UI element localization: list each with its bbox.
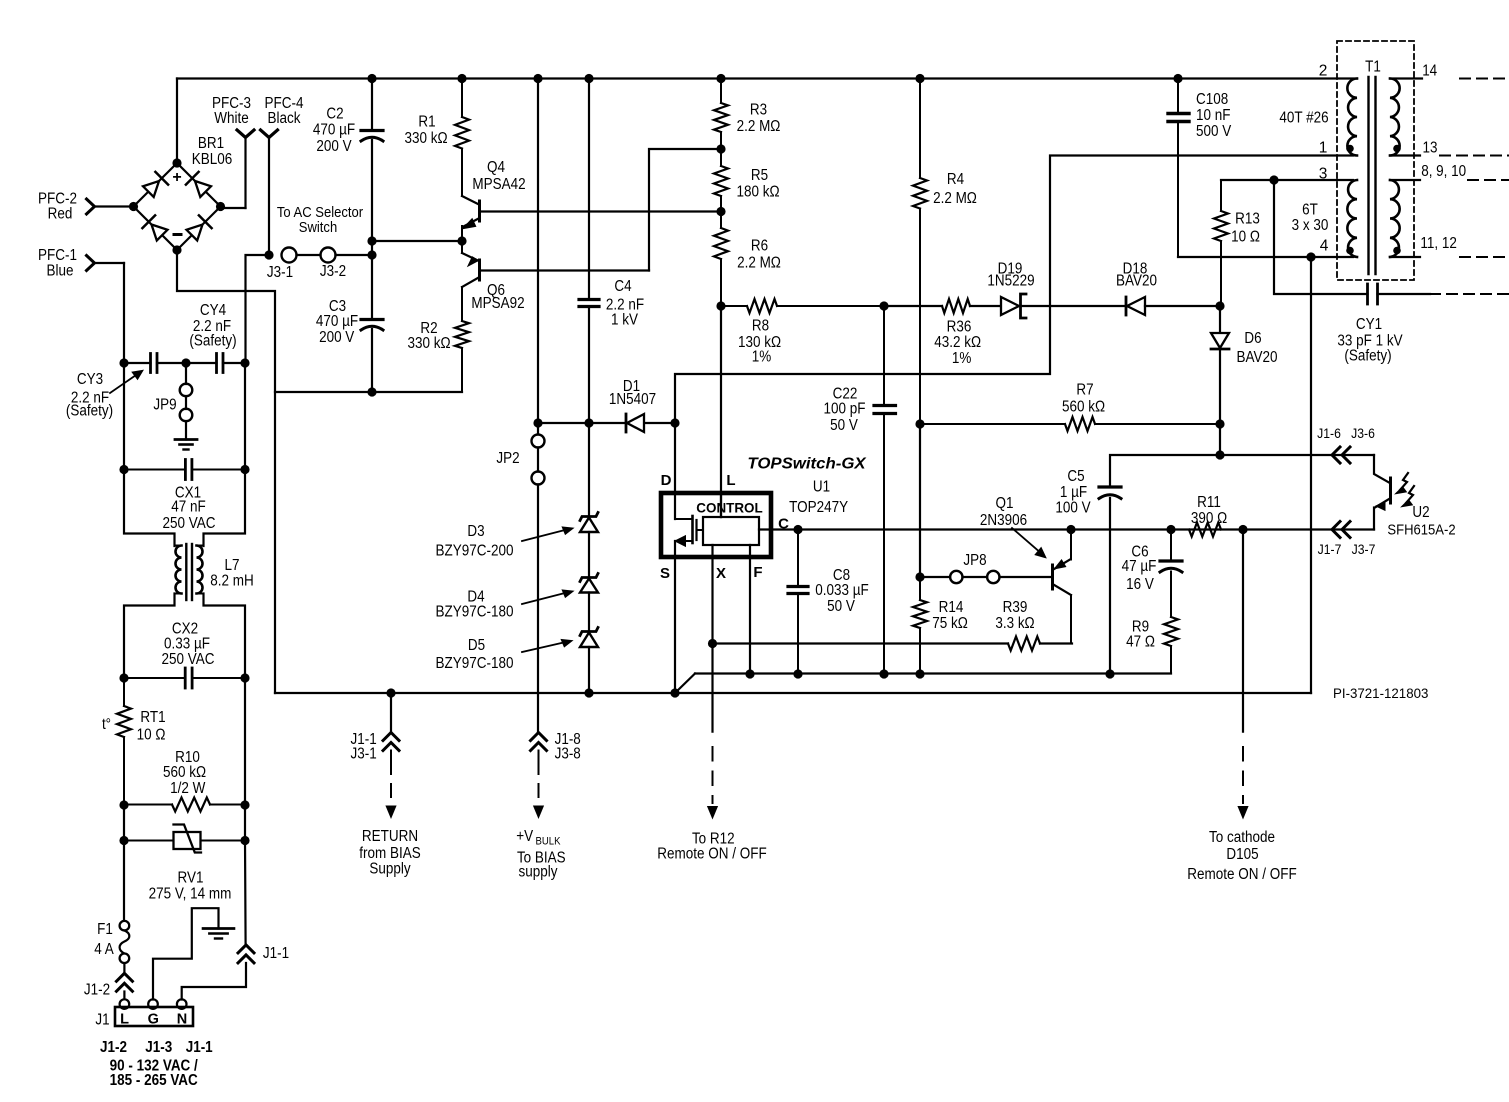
svg-text:L: L <box>726 472 735 489</box>
resistor R5 180k <box>714 149 728 212</box>
label PFC-4 <box>265 95 304 112</box>
wire RV1 to F1 <box>123 841 125 922</box>
wire top rail to JP2 <box>537 79 539 435</box>
svg-text:X: X <box>716 565 726 582</box>
connector J1-7 J3-7 <box>1332 522 1350 538</box>
node X rail tap <box>708 639 717 648</box>
svg-text:CY4: CY4 <box>200 302 227 319</box>
svg-text:RETURN: RETURN <box>362 828 418 845</box>
svg-text:J3-6: J3-6 <box>1351 425 1375 441</box>
pin 3 <box>1319 166 1328 183</box>
svg-text:47 µF: 47 µF <box>1122 558 1157 575</box>
label R6 value <box>737 255 781 272</box>
svg-text:8.2 mH: 8.2 mH <box>210 573 254 590</box>
label C3 voltage <box>319 329 355 346</box>
svg-text:2.2 MΩ: 2.2 MΩ <box>737 255 781 272</box>
node bias return tap <box>386 688 395 697</box>
node JP9 top <box>181 358 190 367</box>
dashed pin 11 12 off page <box>1460 256 1509 258</box>
connector J1-8 J3-8 <box>531 733 547 751</box>
label SFH615A-2 <box>1387 522 1455 539</box>
pin 4 <box>1320 238 1329 255</box>
label Blue <box>47 263 74 280</box>
label 3 x 30 <box>1292 217 1329 234</box>
svg-text:F: F <box>753 564 762 581</box>
label Black <box>268 110 301 127</box>
connector J1-1 <box>238 945 254 963</box>
arrow bias return <box>385 806 396 820</box>
node JP2 top rail <box>533 74 542 83</box>
pin label C <box>778 516 789 533</box>
wire RV1 right lead <box>201 805 246 841</box>
wire CY3-CY4 link <box>124 362 217 364</box>
node pin3 CY1 tap <box>1269 175 1278 184</box>
label J1-7 <box>1318 541 1342 557</box>
label R7 <box>1076 382 1093 399</box>
resistor R7 560k <box>920 417 1220 431</box>
label R14 <box>939 599 964 616</box>
label R5 value <box>736 184 779 201</box>
capacitor CY1 33pF <box>1368 284 1378 304</box>
label PFC-3 <box>212 95 251 112</box>
pin label G <box>148 1012 159 1028</box>
label VAC range 1 <box>110 1058 199 1075</box>
label C5 voltage <box>1055 500 1091 517</box>
connector J1-2 <box>116 973 132 991</box>
svg-text:390 Ω: 390 Ω <box>1191 510 1227 527</box>
svg-text:Blue: Blue <box>47 263 74 280</box>
label R11 <box>1197 494 1221 511</box>
svg-text:13: 13 <box>1423 140 1438 157</box>
label C2 value <box>313 122 355 139</box>
label R10 <box>175 749 200 766</box>
svg-text:L7: L7 <box>225 557 240 574</box>
transformer T1 core <box>1369 77 1376 274</box>
label R2 <box>420 320 437 337</box>
resistor R39 3.3k <box>1008 637 1040 651</box>
wire S rail <box>675 674 1171 694</box>
label VAC range 2 <box>110 1072 198 1089</box>
wire Q6 base <box>480 269 650 271</box>
fuse F1 4A <box>120 921 130 963</box>
label C5 <box>1067 468 1084 485</box>
ground JP9 <box>175 440 197 450</box>
svg-text:R39: R39 <box>1003 599 1028 616</box>
wire C5 top run <box>1110 455 1220 487</box>
wire JP8 to Q1 base <box>1000 576 1052 578</box>
node R14 bottom <box>915 669 924 678</box>
diode BR1 upper-right <box>186 172 211 197</box>
svg-text:T1: T1 <box>1365 59 1381 76</box>
svg-text:J1-2: J1-2 <box>84 982 110 999</box>
wire remote off drop <box>1242 530 1244 804</box>
label R4 value <box>933 190 977 207</box>
label D18 part <box>1116 273 1157 290</box>
svg-text:200 V: 200 V <box>319 329 355 346</box>
svg-text:47 Ω: 47 Ω <box>1126 634 1155 651</box>
wire F pin <box>749 545 751 674</box>
capacitor C2 470uF 200V <box>361 131 383 142</box>
label R3 <box>750 102 767 119</box>
wire T1 pin1 run <box>675 156 1353 424</box>
svg-text:J1-6: J1-6 <box>1317 425 1341 441</box>
svg-text:47 nF: 47 nF <box>171 499 206 516</box>
svg-text:250 VAC: 250 VAC <box>162 651 215 668</box>
label PFC-1 <box>38 247 77 264</box>
svg-text:MPSA92: MPSA92 <box>471 295 524 312</box>
node Q1 emitter rail <box>1066 525 1075 534</box>
wire PFC-4 down <box>268 138 270 256</box>
node CX1 left <box>119 465 128 474</box>
node C22 tap <box>879 301 888 310</box>
label CY4 value <box>193 318 231 335</box>
svg-text:3.3 kΩ: 3.3 kΩ <box>995 615 1034 632</box>
wire CX1 to L7 left <box>124 470 175 547</box>
wire D pin <box>674 423 676 519</box>
pin label X <box>716 565 726 582</box>
label CY4 safety <box>189 333 236 350</box>
svg-text:560 kΩ: 560 kΩ <box>1062 399 1105 416</box>
label R36 tol <box>952 350 972 367</box>
svg-text:N: N <box>177 1012 187 1028</box>
label CY3 value <box>71 390 109 407</box>
wire top rail to C2 <box>371 79 373 131</box>
ic U1 outline <box>661 493 771 557</box>
wire PFC-1 lead <box>94 262 124 264</box>
svg-text:R4: R4 <box>947 171 965 188</box>
svg-text:BR1: BR1 <box>198 135 224 152</box>
ic U1 control block <box>703 517 759 545</box>
svg-text:2N3906: 2N3906 <box>980 512 1027 529</box>
wire CY4 right <box>223 362 245 364</box>
label JP2 <box>496 450 519 467</box>
svg-text:43.2 kΩ: 43.2 kΩ <box>934 334 981 351</box>
svg-text:10 Ω: 10 Ω <box>1231 229 1260 246</box>
svg-text:CY3: CY3 <box>77 371 103 388</box>
mosfet U1 internal <box>675 516 703 546</box>
wire J3-1 stub to neutral column <box>246 255 270 363</box>
label C4 value <box>606 297 644 314</box>
svg-text:Remote ON / OFF: Remote ON / OFF <box>1187 866 1296 883</box>
svg-text:2.2 MΩ: 2.2 MΩ <box>737 118 781 135</box>
resistor R6 2.2M <box>714 212 728 307</box>
node D6 to opto rail <box>1215 450 1224 459</box>
node R6-R8-L junction <box>716 301 725 310</box>
svg-text:JP8: JP8 <box>963 552 986 569</box>
connector J3-2 <box>321 248 336 263</box>
svg-text:1N5407: 1N5407 <box>609 391 656 408</box>
wire D5 to return rail <box>588 647 590 693</box>
arrow to D4 <box>522 591 572 605</box>
label Remote ON OFF right <box>1187 866 1296 883</box>
svg-text:330 kΩ: 330 kΩ <box>404 130 447 147</box>
node R7 left <box>915 419 924 428</box>
label D5 <box>468 637 485 654</box>
wire vbulk dashed <box>538 751 540 801</box>
label RV1 value <box>149 886 232 903</box>
label RT1 <box>140 709 165 726</box>
label C3 value <box>316 313 358 330</box>
label D19 <box>998 261 1023 278</box>
label J1-6 <box>1317 425 1341 441</box>
label R14 value <box>932 615 968 632</box>
label JP9 <box>153 397 176 414</box>
svg-text:C5: C5 <box>1067 468 1084 485</box>
connector JP8 left <box>950 571 962 583</box>
label C6 <box>1131 544 1148 561</box>
capacitor C8 0.033uF <box>788 530 808 675</box>
wire control rail <box>798 528 1374 530</box>
connector PFC-1 <box>87 256 95 271</box>
svg-text:+: + <box>172 169 181 186</box>
zener D5 BZY97C-180 <box>580 628 598 648</box>
svg-text:(Safety): (Safety) <box>189 333 236 350</box>
svg-text:PFC-1: PFC-1 <box>38 247 77 264</box>
svg-text:200 V: 200 V <box>316 138 352 155</box>
wire JP9 to ground <box>185 421 187 440</box>
wire CX1 to L7 right <box>204 470 246 547</box>
thermistor RT1 10 <box>117 678 131 805</box>
connector PFC-3 <box>237 130 254 138</box>
optocoupler U2 light arrows <box>1397 473 1414 506</box>
wire D6 anode <box>1219 306 1221 333</box>
svg-text:(Safety): (Safety) <box>1344 348 1391 365</box>
wire D19 to D18 <box>1021 305 1126 307</box>
label KBL06 <box>192 151 233 168</box>
svg-text:JP2: JP2 <box>496 450 519 467</box>
label 1N5229 <box>987 273 1034 290</box>
label RV1 <box>178 870 204 887</box>
label RT1 value <box>137 727 166 744</box>
arrow to D3 <box>522 528 572 542</box>
node C3 top <box>367 250 376 259</box>
label R11 value <box>1191 510 1227 527</box>
node R5-R6 junction <box>716 207 725 216</box>
zener D19 1N5229 <box>1001 294 1026 318</box>
svg-text:0.033 µF: 0.033 µF <box>815 582 869 599</box>
svg-text:BZY97C-180: BZY97C-180 <box>436 604 514 621</box>
label PFC-2 <box>38 191 77 208</box>
pin 8 9 10 <box>1421 163 1466 180</box>
svg-text:Red: Red <box>48 206 73 223</box>
node C6 top <box>1166 525 1175 534</box>
wire C3 bottom <box>371 329 373 392</box>
label 40T #26 <box>1279 110 1328 127</box>
svg-text:50 V: 50 V <box>830 417 858 434</box>
label J3-1 bias <box>351 746 377 763</box>
wire bias return drop <box>390 693 392 733</box>
wire line column to CX1 <box>123 363 125 470</box>
wire D18 to R13-D6 node <box>1145 305 1220 307</box>
svg-text:BZY97C-180: BZY97C-180 <box>436 655 514 672</box>
wire X rail <box>713 642 1009 644</box>
inductor L7 left winding <box>175 546 182 594</box>
label R5 <box>751 167 768 184</box>
label R1 value <box>404 130 447 147</box>
svg-text:U2: U2 <box>1412 504 1429 521</box>
wire J3-1 to J3-2 <box>297 254 321 256</box>
node R10 right <box>240 800 249 809</box>
svg-text:4: 4 <box>1320 238 1329 255</box>
pin 13 <box>1423 140 1438 157</box>
label supply <box>519 864 558 881</box>
svg-text:R8: R8 <box>752 318 769 335</box>
label D3 <box>467 523 484 540</box>
svg-text:2: 2 <box>1319 62 1328 79</box>
label J1-2 bottom <box>100 1039 127 1056</box>
svg-text:470 µF: 470 µF <box>316 313 358 330</box>
pin label L <box>726 472 735 489</box>
resistor R14 75k <box>913 577 927 674</box>
node remote tap <box>1238 525 1247 534</box>
wire JP2 middle <box>537 448 539 472</box>
label C5 value <box>1060 484 1087 501</box>
svg-text:R3: R3 <box>750 102 767 119</box>
svg-text:6T: 6T <box>1302 202 1318 219</box>
svg-text:1: 1 <box>1319 140 1328 157</box>
wire neutral to J1-1 <box>244 841 247 945</box>
resistor R4 2.2M <box>913 79 927 425</box>
connector JP2 lower <box>532 472 545 485</box>
svg-text:R36: R36 <box>947 319 972 336</box>
svg-text:RT1: RT1 <box>140 709 165 726</box>
label D105 <box>1226 846 1258 863</box>
svg-text:500 V: 500 V <box>1196 123 1232 140</box>
wire L pin inside <box>720 492 722 517</box>
label C8 <box>833 567 850 584</box>
label To cathode <box>1209 829 1275 846</box>
connector PFC-2 <box>87 199 95 214</box>
label MPSA92 <box>471 295 524 312</box>
label JP8 <box>963 552 986 569</box>
label CY1 safety <box>1344 348 1391 365</box>
svg-text:330 kΩ: 330 kΩ <box>407 335 450 352</box>
node JP8 left <box>915 572 924 581</box>
zener D3 BZY97C-200 <box>580 513 598 533</box>
wire bias return dashed <box>390 751 392 801</box>
svg-text:SFH615A-2: SFH615A-2 <box>1387 522 1455 539</box>
label Remote ON OFF left <box>657 846 766 863</box>
arrow vbulk <box>533 806 544 820</box>
wire pin 11 12 <box>1390 256 1420 258</box>
label U1 <box>813 479 830 496</box>
pin circle N <box>177 999 187 1009</box>
resistor R3 2.2M <box>714 79 728 150</box>
label L7 value <box>210 573 254 590</box>
wire CY1 right <box>1378 293 1431 295</box>
wire L pin column <box>720 306 722 517</box>
svg-text:+V: +V <box>516 828 533 845</box>
label C108 voltage <box>1196 123 1232 140</box>
svg-text:supply: supply <box>519 864 558 881</box>
wire neutral CX2 to R10 <box>244 677 246 805</box>
svg-text:BULK: BULK <box>536 836 562 848</box>
wire T1 pin4 run <box>1178 256 1353 258</box>
label C6 value <box>1122 558 1157 575</box>
capacitor C108 10nF 500V <box>1168 79 1189 258</box>
label +VBULK <box>516 828 561 848</box>
label Q4 <box>487 159 505 176</box>
svg-text:L: L <box>120 1012 129 1028</box>
capacitor C22 100pF <box>874 306 896 674</box>
svg-text:(Safety): (Safety) <box>66 403 113 420</box>
label D5 part <box>436 655 514 672</box>
capacitor C4 2.2nF 1kV <box>579 300 599 307</box>
svg-text:1%: 1% <box>752 349 772 366</box>
svg-text:16 V: 16 V <box>1126 576 1154 593</box>
pin label S <box>660 565 670 582</box>
pin label N <box>177 1012 187 1028</box>
connector J1 body <box>115 1007 193 1026</box>
label D6 <box>1244 330 1261 347</box>
svg-text:TOPSwitch-GX: TOPSwitch-GX <box>747 456 867 473</box>
label J3-8 <box>555 746 581 763</box>
wire C2 to junctions <box>371 140 373 320</box>
svg-text:3 x 30: 3 x 30 <box>1292 217 1329 234</box>
diode D6 BAV20 <box>1211 333 1229 349</box>
svg-text:40T #26: 40T #26 <box>1279 110 1328 127</box>
label R7 value <box>1062 399 1105 416</box>
node CX2 right <box>240 673 249 682</box>
label R9 value <box>1126 634 1155 651</box>
label R3 value <box>737 118 781 135</box>
label R10 value <box>163 764 206 781</box>
arrow to CY3 <box>110 371 142 393</box>
svg-text:J3-2: J3-2 <box>320 263 346 280</box>
connector JP8 right <box>987 571 999 583</box>
dashed pin 14 off page <box>1460 78 1509 80</box>
node BR1 bottom <box>172 245 181 254</box>
wire R8 to R36 <box>884 305 942 307</box>
label RETURN <box>362 828 418 845</box>
label C2 voltage <box>316 138 352 155</box>
svg-text:J3-8: J3-8 <box>555 746 581 763</box>
label To AC Selector <box>277 204 363 221</box>
dashed CY1 off page <box>1430 293 1509 295</box>
label CX1 value <box>171 499 206 516</box>
capacitor CX1 47nF <box>124 460 245 480</box>
wire top bulk+ rail <box>177 77 1357 79</box>
svg-text:11, 12: 11, 12 <box>1420 235 1457 252</box>
label J3-7 <box>1352 541 1376 557</box>
node CX1 right <box>240 465 249 474</box>
svg-text:KBL06: KBL06 <box>192 151 233 168</box>
node R7 right <box>1215 419 1224 428</box>
svg-text:0.33 µF: 0.33 µF <box>164 636 210 653</box>
optocoupler U2 transistor <box>1374 455 1391 530</box>
svg-text:1N5229: 1N5229 <box>987 273 1034 290</box>
label R36 <box>947 319 972 336</box>
label F1 value <box>94 941 114 958</box>
label F1 <box>97 921 113 938</box>
label J1-3 bottom <box>145 1039 172 1056</box>
label Q6 <box>487 282 505 299</box>
inductor L7 core <box>186 544 192 600</box>
svg-text:PI-3721-121803: PI-3721-121803 <box>1333 685 1429 701</box>
svg-text:S: S <box>660 565 670 582</box>
node F return <box>745 669 754 678</box>
svg-text:1 kV: 1 kV <box>611 312 639 329</box>
label To R12 <box>692 831 735 848</box>
capacitor C6 47uF 16V <box>1160 530 1182 618</box>
label from BIAS <box>359 845 420 862</box>
wire JP8 middle <box>963 576 988 578</box>
svg-text:75 kΩ: 75 kΩ <box>932 615 968 632</box>
svg-text:275 V, 14 mm: 275 V, 14 mm <box>149 886 232 903</box>
pin 2 <box>1319 62 1328 79</box>
label D1 <box>623 378 640 395</box>
wire D1 node to D3 <box>588 423 590 517</box>
